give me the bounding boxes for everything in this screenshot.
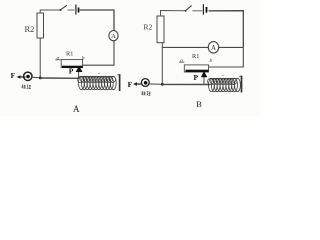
slider stem wire <box>78 72 80 78</box>
rheostat R1 resistive bar (thick bottom) <box>62 66 83 68</box>
iron ring' (circle with center dot) <box>141 79 149 87</box>
battery B1 short thick plate <box>78 8 80 13</box>
wire: battery to top-right corner, down to ammeter <box>80 10 114 31</box>
switch S1 blade <box>60 5 67 10</box>
ammeter A2 <box>208 42 218 53</box>
label 铁环 (tiny) <box>22 85 32 89</box>
wire: battery to top-right corner, down to junction <box>209 11 244 48</box>
wire: ring to junction <box>32 76 40 78</box>
wire: ammeter branch (left vertical to right vertical) <box>162 46 243 48</box>
coil L2 (solenoid) <box>209 78 241 91</box>
ammeter A1 <box>109 30 118 40</box>
svg-text:P: P <box>69 66 74 75</box>
slider P arrow <box>76 66 83 72</box>
svg-text:a: a <box>57 56 60 62</box>
stray tick above coil' <box>222 74 224 77</box>
slider P' arrow <box>201 71 207 77</box>
stray tick above coil <box>98 72 100 75</box>
wire: R2 bottom down to junction <box>39 38 41 78</box>
junction node <box>39 77 42 80</box>
terminal a' stub <box>179 61 184 63</box>
coil L2 right end bar <box>239 76 242 93</box>
junction node' <box>161 83 164 86</box>
coil L1 (solenoid) <box>79 76 117 89</box>
coil L1 top loop accents <box>77 76 115 82</box>
label 铁环' (tiny) <box>141 91 150 95</box>
iron ring (circle with center dot) <box>24 72 32 80</box>
svg-text:F: F <box>128 80 133 89</box>
svg-text:A: A <box>73 104 80 114</box>
wire: right vertical down, corner, left to terminal b <box>209 47 244 67</box>
svg-text:A: A <box>211 44 216 52</box>
slider P' stem wire <box>203 77 205 84</box>
force arrow' (left) <box>133 82 142 86</box>
wire: R2' top to top wire corner <box>161 11 186 17</box>
switch S2 pivot dot <box>185 10 187 12</box>
rheostat R1 body <box>61 60 82 68</box>
svg-text:P: P <box>194 73 199 82</box>
rheostat R1' resistive bar (thick bottom) <box>186 70 209 72</box>
coil L1 right end bar <box>117 74 120 91</box>
svg-text:R1: R1 <box>66 50 73 57</box>
resistor R2 (left, vertical) <box>37 13 44 38</box>
battery B2 short thick plate <box>206 7 208 13</box>
svg-text:b: b <box>82 56 85 62</box>
force arrow (left) <box>17 75 26 79</box>
svg-text:R2: R2 <box>144 23 153 32</box>
switch S1 pivot dot <box>59 9 61 11</box>
battery B2 long plate <box>202 4 204 14</box>
wire: switch to battery <box>68 9 75 11</box>
svg-text:R2: R2 <box>25 24 35 34</box>
wire: R2 top to top wire corner <box>40 10 60 13</box>
battery B1 long plate <box>75 5 77 15</box>
wire: ring' to junction <box>150 83 163 85</box>
bottom wire: junction to coil <box>40 77 80 79</box>
wire: R2' bottom down to junction <box>161 43 163 85</box>
svg-text:A: A <box>111 33 116 40</box>
resistor R2' (left, vertical) <box>157 16 164 43</box>
svg-text:R1: R1 <box>192 53 199 60</box>
rheostat R1' body <box>184 65 208 72</box>
bottom wire: junction to coil <box>162 83 210 85</box>
coil L2 top loop accents <box>207 78 236 84</box>
svg-text:a: a <box>180 58 183 64</box>
wire: ammeter down, corner, left to terminal b <box>83 40 114 65</box>
svg-text:F: F <box>11 71 16 80</box>
terminal a stub <box>55 59 61 61</box>
switch S2 blade <box>185 6 191 11</box>
wire: switch to battery <box>192 10 202 12</box>
svg-text:b: b <box>210 58 213 64</box>
svg-text:B: B <box>196 99 202 109</box>
